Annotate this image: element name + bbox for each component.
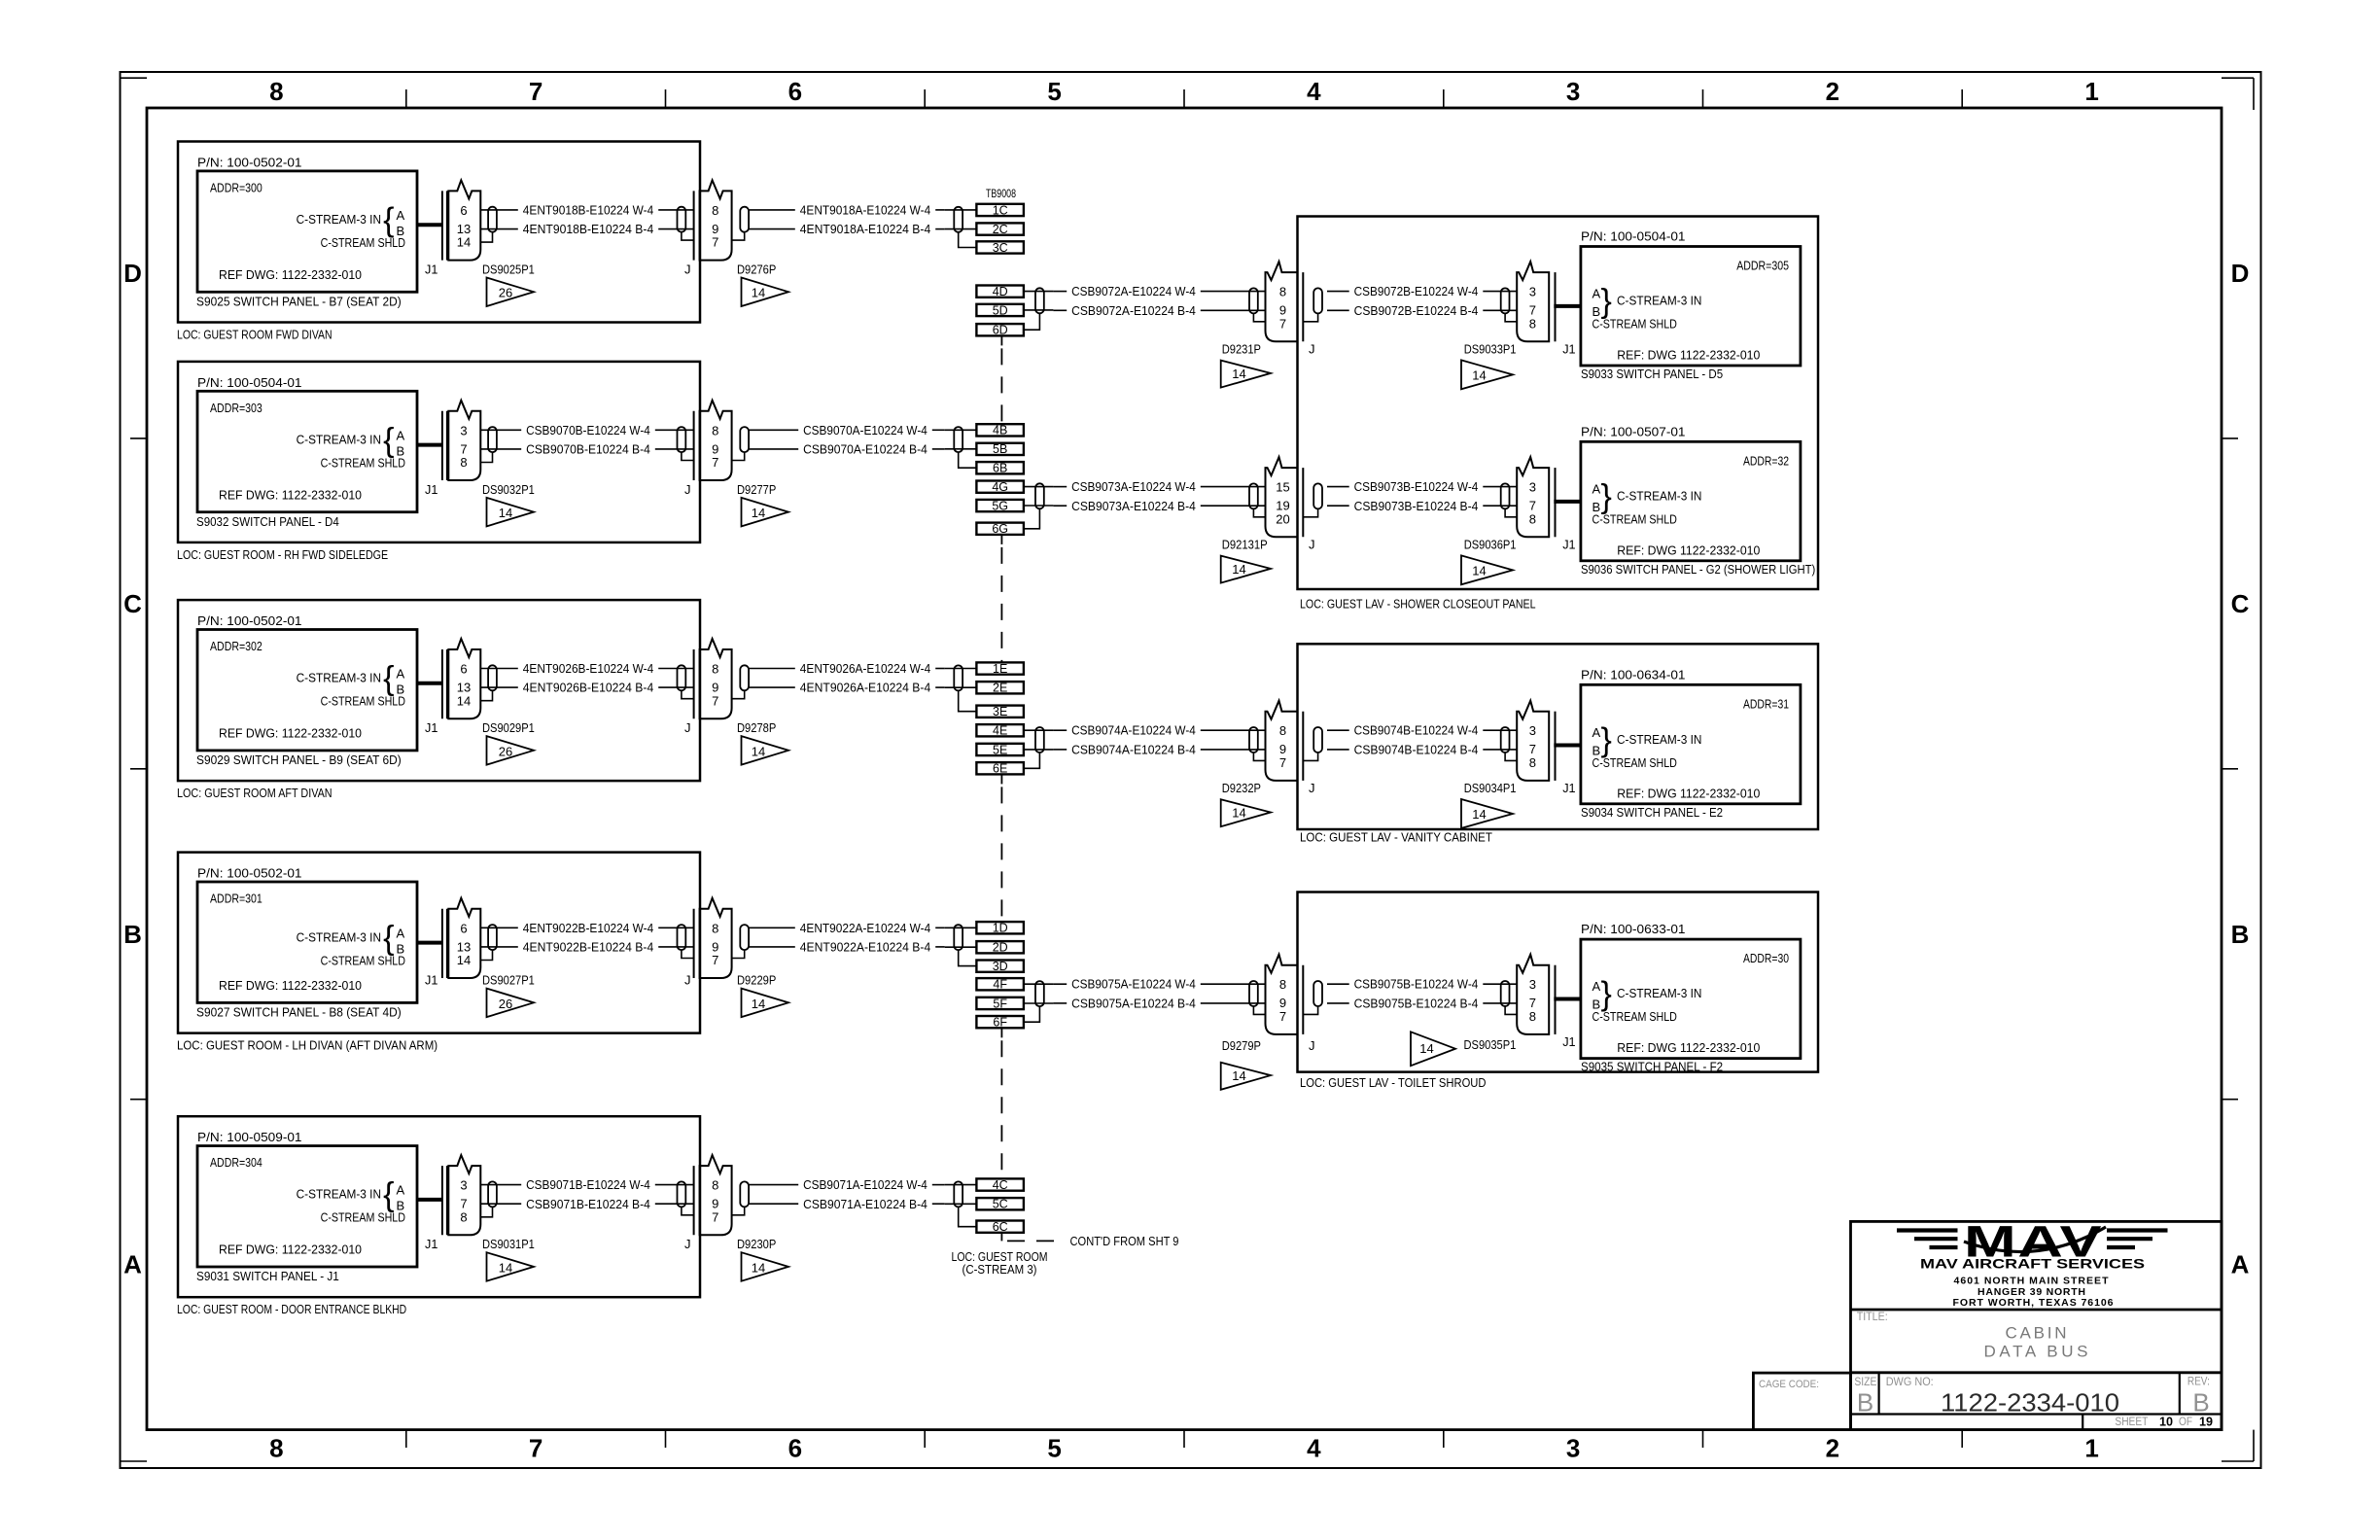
wire CSB9073B-E10224 W-4 (1327, 479, 1518, 494)
svg-text:S9036 SWITCH PANEL - G2 (SHOWE: S9036 SWITCH PANEL - G2 (SHOWER LIGHT) (1581, 562, 1815, 577)
svg-text:DS9027P1: DS9027P1 (482, 973, 535, 988)
J label for D9278P (684, 720, 691, 735)
svg-text:C-STREAM-3 IN: C-STREAM-3 IN (1617, 294, 1701, 308)
svg-text:CSB9074A-E10224 W-4: CSB9074A-E10224 W-4 (1071, 723, 1196, 738)
S9025 ADDR label (210, 181, 262, 195)
S9035 brace (1601, 976, 1612, 1013)
svg-text:CSB9072A-E10224 W-4: CSB9072A-E10224 W-4 (1071, 284, 1196, 298)
J1 label for S9031 (425, 1237, 437, 1251)
LOC: GUEST LAV - TOILET SHROUD label (1300, 1075, 1487, 1090)
S9031 REF DWG label (219, 1242, 362, 1257)
splice grommet at terminals 1C-2C (954, 207, 962, 232)
terminal 4F (TB9008) (976, 978, 1024, 992)
splice grommet at terminals 4F-5F (1035, 981, 1044, 1006)
S9034 inner unit box (1581, 684, 1801, 804)
svg-text:P/N: 100-0502-01: P/N: 100-0502-01 (197, 866, 302, 881)
wire 4ENT9022B-E10224 W-4 (480, 921, 694, 935)
svg-text:7: 7 (529, 1434, 542, 1463)
svg-text:P/N: 100-0509-01: P/N: 100-0509-01 (197, 1130, 302, 1144)
svg-text:8: 8 (1529, 1009, 1536, 1024)
svg-text:1: 1 (2084, 77, 2098, 106)
svg-text:1C: 1C (993, 203, 1008, 217)
S9036 REF DWG label (1617, 542, 1760, 557)
S9029 LOC label (177, 786, 332, 800)
wire 4ENT9018A-E10224 B-4 (749, 222, 945, 236)
svg-text:7: 7 (712, 1209, 718, 1224)
J1 label for S9025 (425, 262, 437, 277)
drawing title CABIN DATA BUS (1984, 1324, 2088, 1361)
svg-text:14: 14 (457, 235, 471, 250)
svg-text:8: 8 (460, 1209, 467, 1224)
svg-text:4601 NORTH MAIN STREET: 4601 NORTH MAIN STREET (1954, 1276, 2110, 1287)
svg-text:J1: J1 (425, 720, 437, 735)
svg-text:ADDR=32: ADDR=32 (1743, 453, 1789, 468)
S9029 ADDR label (210, 639, 262, 653)
wire ref triangle 14 for DS9032P1 (487, 498, 535, 527)
svg-text:TITLE:: TITLE: (1857, 1312, 1888, 1323)
SIZE label and value (1854, 1377, 1876, 1417)
svg-text:REF: DWG 1122-2332-010: REF: DWG 1122-2332-010 (1617, 1040, 1760, 1055)
svg-text:9: 9 (1279, 996, 1286, 1010)
svg-text:8: 8 (712, 203, 718, 218)
wire CSB9071B-E10224 B-4 (480, 1197, 694, 1211)
svg-text:7: 7 (460, 441, 467, 456)
svg-text:J1: J1 (425, 1237, 437, 1251)
svg-text:7: 7 (712, 455, 718, 470)
S9034 brace (1601, 722, 1612, 759)
svg-text:REF: DWG 1122-2332-010: REF: DWG 1122-2332-010 (1617, 786, 1760, 800)
svg-text:A: A (397, 926, 405, 940)
connector DS9032P1 (J1) (442, 401, 480, 480)
S9027 pin B label (397, 941, 405, 956)
svg-text:5D: 5D (993, 303, 1008, 317)
svg-text:CSB9074B-E10224 B-4: CSB9074B-E10224 B-4 (1354, 742, 1479, 756)
svg-text:CSB9070B-E10224 W-4: CSB9070B-E10224 W-4 (526, 423, 650, 437)
D9230P label (737, 1237, 776, 1251)
svg-text:A: A (1592, 482, 1601, 497)
svg-text:DS9035P1: DS9035P1 (1464, 1037, 1517, 1052)
svg-text:8: 8 (1279, 977, 1286, 992)
svg-text:9: 9 (1279, 303, 1286, 318)
S9035 REF DWG label (1617, 1040, 1760, 1055)
DS9034P1 label (1464, 781, 1517, 795)
DS9025P1 pigtail splice grommet (488, 207, 497, 232)
S9035 pin A label (1592, 979, 1601, 994)
svg-text:6C: 6C (993, 1220, 1008, 1234)
svg-text:CSB9075A-E10224 W-4: CSB9075A-E10224 W-4 (1071, 977, 1196, 992)
svg-text:5C: 5C (993, 1198, 1008, 1211)
connector DS9033P1 (J1) (1501, 262, 1556, 341)
svg-text:14: 14 (1472, 807, 1486, 822)
S9033 pin A label (1592, 287, 1601, 301)
shield jog to terminal 3E (959, 690, 977, 711)
S9027 brace (383, 920, 394, 957)
svg-text:}: } (1601, 283, 1612, 320)
svg-text:J: J (684, 1237, 691, 1251)
svg-text:HANGER 39 NORTH: HANGER 39 NORTH (1977, 1286, 2085, 1298)
J1 label for S9029 (425, 720, 437, 735)
wire CSB9070B-E10224 B-4 (480, 441, 694, 456)
svg-text:14: 14 (752, 997, 765, 1011)
S9034 title (1581, 805, 1723, 820)
thick A/B wire from S9025 to DS9025P1 (417, 223, 443, 227)
svg-text:CSB9071A-E10224 B-4: CSB9071A-E10224 B-4 (803, 1197, 927, 1211)
svg-text:S9031 SWITCH PANEL - J1: S9031 SWITCH PANEL - J1 (196, 1269, 339, 1283)
wire stubs into 1D/2D (945, 927, 977, 947)
S9033 P/N label (1581, 229, 1686, 244)
company address (1953, 1276, 2114, 1310)
DWG NO label and number (1886, 1377, 2119, 1417)
S9036 inner unit box (1581, 441, 1801, 561)
shield jog to terminal 3C (959, 232, 977, 248)
wire ref triangle 26 for DS9029P1 (487, 736, 535, 765)
svg-text:J1: J1 (1562, 538, 1575, 552)
svg-text:LOC: GUEST ROOM FWD DIVAN: LOC: GUEST ROOM FWD DIVAN (177, 328, 332, 342)
terminal 4G (TB9008) (976, 480, 1024, 494)
svg-text:14: 14 (752, 1260, 765, 1275)
svg-text:B: B (1857, 1388, 1873, 1417)
terminal 1D (TB9008) (976, 922, 1024, 935)
svg-text:C-STREAM-3 IN: C-STREAM-3 IN (297, 212, 381, 227)
svg-text:C-STREAM SHLD: C-STREAM SHLD (321, 455, 405, 470)
zone letters right (2231, 259, 2250, 1279)
terminal 6B (TB9008) (976, 462, 1024, 475)
wire ref triangle 14 for DS9034P1 (1461, 799, 1513, 828)
svg-text:2C: 2C (993, 223, 1008, 236)
svg-text:FORT WORTH, TEXAS 76106: FORT WORTH, TEXAS 76106 (1953, 1297, 2114, 1309)
title block frame (1851, 1221, 2222, 1429)
terminal 5F (TB9008) (976, 997, 1024, 1010)
svg-text:4: 4 (1307, 77, 1321, 106)
DS9032P1 pigtail splice grommet (488, 427, 497, 452)
switch panel block S9029 outer box (178, 600, 700, 781)
guest lav vanity cabinet outer box (1298, 644, 1819, 829)
svg-text:CSB9072A-E10224 B-4: CSB9072A-E10224 B-4 (1071, 303, 1196, 318)
terminal 3D (TB9008) (976, 960, 1024, 973)
svg-text:5: 5 (1047, 77, 1061, 106)
svg-text:9: 9 (1279, 742, 1286, 756)
svg-text:3: 3 (1529, 285, 1536, 299)
S9025 C-STREAM-3 IN label (297, 212, 381, 227)
J label for D9231P (1309, 342, 1315, 357)
S9027 LOC label (177, 1038, 437, 1053)
svg-text:J1: J1 (425, 482, 437, 497)
connector DS9036P1 (J1) (1501, 457, 1556, 537)
svg-text:13: 13 (457, 939, 471, 954)
svg-text:CABIN: CABIN (2006, 1324, 2067, 1343)
svg-text:P/N: 100-0507-01: P/N: 100-0507-01 (1581, 424, 1686, 438)
S9031 brace (383, 1176, 394, 1213)
svg-text:14: 14 (499, 506, 512, 520)
TITLE: label (1857, 1312, 1888, 1323)
svg-text:C-STREAM-3 IN: C-STREAM-3 IN (1617, 732, 1701, 747)
svg-text:REF DWG: 1122-2332-010: REF DWG: 1122-2332-010 (219, 978, 362, 993)
thick A/B wire from DS9034P1 to S9034 (1554, 744, 1581, 748)
S9033 C-STREAM-3 IN label (1617, 294, 1701, 308)
svg-text:DWG NO:: DWG NO: (1886, 1377, 1934, 1388)
svg-text:C-STREAM SHLD: C-STREAM SHLD (1592, 1009, 1677, 1024)
D92131P label (1222, 538, 1268, 552)
thick A/B wire from S9031 to DS9031P1 (417, 1198, 443, 1202)
svg-text:REF DWG: 1122-2332-010: REF DWG: 1122-2332-010 (219, 726, 362, 741)
svg-text:J: J (684, 720, 691, 735)
svg-text:7: 7 (712, 953, 718, 967)
wire ref triangle 14 for D9230P (742, 1252, 789, 1281)
svg-text:5: 5 (1047, 1434, 1061, 1463)
svg-text:14: 14 (457, 693, 471, 708)
svg-text:C-STREAM SHLD: C-STREAM SHLD (321, 953, 405, 967)
S9033 brace (1601, 283, 1612, 320)
svg-text:3: 3 (460, 423, 467, 437)
wire 4ENT9022B-E10224 B-4 (480, 939, 694, 954)
S9029 title (196, 752, 402, 767)
svg-text:4C: 4C (993, 1178, 1008, 1192)
wire CSB9072B-E10224 B-4 (1327, 303, 1518, 318)
svg-text:D9279P: D9279P (1222, 1038, 1261, 1053)
svg-text:P/N: 100-0502-01: P/N: 100-0502-01 (197, 156, 302, 170)
svg-text:D: D (2231, 259, 2250, 288)
switch panel block S9031 outer box (178, 1116, 700, 1297)
terminal 2D (TB9008) (976, 941, 1024, 955)
DS9027P1 pigtail splice grommet (488, 925, 497, 950)
svg-text:14: 14 (499, 1260, 512, 1275)
svg-text:26: 26 (499, 744, 512, 758)
S9032 inner unit box (197, 391, 417, 511)
svg-text:1122-2334-010: 1122-2334-010 (1941, 1388, 2119, 1417)
terminal 5D (TB9008) (976, 303, 1024, 317)
wire 4ENT9026A-E10224 B-4 (749, 681, 945, 695)
wire stubs out of 4E/5E (1024, 730, 1054, 750)
wire ref triangle 14 for DS9031P1 (487, 1252, 535, 1281)
wire CSB9075B-E10224 W-4 (1327, 977, 1518, 992)
svg-text:A: A (1592, 287, 1601, 301)
svg-text:DS9034P1: DS9034P1 (1464, 781, 1517, 795)
J1 label for DS9036P1 (1562, 538, 1575, 552)
wire CSB9072B-E10224 W-4 (1327, 284, 1518, 298)
svg-text:CONT'D FROM SHT 9: CONT'D FROM SHT 9 (1070, 1234, 1179, 1248)
svg-text:6B: 6B (993, 462, 1007, 475)
svg-text:J: J (684, 262, 691, 277)
connector DS9034P1 (J1) (1501, 701, 1556, 781)
S9035 ADDR label (1743, 951, 1789, 965)
wire CSB9071A-E10224 W-4 (749, 1177, 945, 1192)
svg-text:ADDR=30: ADDR=30 (1743, 951, 1789, 965)
S9029 inner unit box (197, 630, 417, 751)
D9231P label (1222, 342, 1261, 357)
connector D9229P (J) at panel wall (678, 898, 750, 978)
svg-text:CSB9073A-E10224 W-4: CSB9073A-E10224 W-4 (1071, 479, 1196, 494)
svg-text:3D: 3D (993, 960, 1008, 973)
J1 label for S9032 (425, 482, 437, 497)
svg-text:7: 7 (1279, 1009, 1286, 1024)
svg-text:4: 4 (1307, 1434, 1321, 1463)
svg-text:CSB9070A-E10224 W-4: CSB9070A-E10224 W-4 (803, 423, 927, 437)
svg-text:7: 7 (1279, 755, 1286, 770)
svg-text:19: 19 (2199, 1416, 2213, 1429)
wire ref triangle 14 for D9278P (742, 736, 789, 765)
S9031 pin B label (397, 1199, 405, 1213)
MAV AIRCRAFT SERVICES name (1920, 1256, 2145, 1272)
wire CSB9071A-E10224 B-4 (749, 1197, 945, 1211)
J1 label for DS9033P1 (1562, 342, 1575, 357)
svg-text:A: A (1592, 725, 1601, 740)
svg-text:}: } (1601, 478, 1612, 515)
svg-text:CSB9070B-E10224 B-4: CSB9070B-E10224 B-4 (526, 441, 650, 456)
S9029 brace (383, 660, 394, 697)
svg-text:7: 7 (1529, 742, 1536, 756)
svg-text:{: { (383, 422, 394, 459)
svg-text:LOC: GUEST LAV - SHOWER CLOSEO: LOC: GUEST LAV - SHOWER CLOSEOUT PANEL (1300, 597, 1536, 612)
svg-text:P/N: 100-0502-01: P/N: 100-0502-01 (197, 613, 302, 628)
S9035 C-STREAM SHLD label (1592, 1009, 1677, 1024)
svg-text:8: 8 (1279, 285, 1286, 299)
wire CSB9075A-E10224 B-4 (1053, 996, 1266, 1010)
svg-text:DS9033P1: DS9033P1 (1464, 342, 1517, 357)
zone letters left (123, 259, 142, 1279)
wire CSB9072A-E10224 W-4 (1053, 284, 1266, 298)
zone numbers bottom (269, 1434, 2099, 1463)
splice grommet at terminals 1D-2D (954, 925, 962, 950)
S9036 pin A label (1592, 482, 1601, 497)
S9031 C-STREAM SHLD label (321, 1210, 405, 1225)
D9229P label (737, 973, 776, 988)
svg-text:P/N: 100-0633-01: P/N: 100-0633-01 (1581, 922, 1686, 936)
terminal 1C (TB9008) (976, 203, 1024, 217)
terminal 5G (TB9008) (976, 499, 1024, 512)
shield jog to terminal 3D (959, 950, 977, 965)
J label for D9277P (684, 482, 691, 497)
connector DS9035P1 (J1) (1501, 955, 1556, 1034)
svg-text:DS9032P1: DS9032P1 (482, 482, 535, 497)
svg-text:CSB9073B-E10224 W-4: CSB9073B-E10224 W-4 (1354, 479, 1479, 494)
svg-text:26: 26 (499, 286, 512, 300)
CAGE CODE box (1753, 1373, 1850, 1430)
D9232P label (1222, 781, 1261, 795)
wire CSB9073A-E10224 B-4 (1053, 499, 1266, 513)
svg-text:TB9008: TB9008 (986, 187, 1016, 200)
S9036 C-STREAM-3 IN label (1617, 489, 1701, 504)
svg-text:J: J (1309, 342, 1315, 357)
svg-text:ADDR=31: ADDR=31 (1743, 696, 1789, 711)
D9277P label (737, 482, 776, 497)
svg-text:SIZE: SIZE (1854, 1377, 1876, 1388)
S9031 inner unit box (197, 1146, 417, 1267)
svg-text:1D: 1D (993, 922, 1008, 935)
wire stubs into 1E/2E (945, 669, 977, 688)
wire stubs into 4B/5B (945, 430, 977, 449)
svg-text:B: B (2231, 920, 2250, 949)
wire CSB9074B-E10224 W-4 (1327, 723, 1518, 738)
svg-text:9: 9 (712, 681, 718, 695)
svg-text:9: 9 (712, 222, 718, 236)
S9029 C-STREAM SHLD label (321, 694, 405, 709)
CONT'D FROM SHT 9 note (1070, 1234, 1179, 1248)
svg-text:DS9031P1: DS9031P1 (482, 1237, 535, 1251)
wire CSB9070B-E10224 W-4 (480, 423, 694, 437)
svg-text:4ENT9026A-E10224 B-4: 4ENT9026A-E10224 B-4 (800, 681, 930, 695)
S9032 pin A label (397, 428, 405, 442)
LOC: GUEST ROOM (C-STREAM 3) note (952, 1249, 1048, 1277)
svg-text:LOC: GUEST ROOM - DOOR ENTRANC: LOC: GUEST ROOM - DOOR ENTRANCE BLKHD (177, 1302, 406, 1316)
wire ref triangle 14 for DS9036P1 (1461, 555, 1513, 584)
svg-text:8: 8 (712, 662, 718, 677)
svg-text:OF: OF (2179, 1417, 2192, 1428)
svg-text:4ENT9018B-E10224 B-4: 4ENT9018B-E10224 B-4 (523, 222, 653, 236)
connector DS9025P1 (J1) (442, 180, 480, 260)
svg-text:CAGE CODE:: CAGE CODE: (1759, 1379, 1819, 1390)
DS9032P1 label (482, 482, 535, 497)
switch panel block S9032 outer box (178, 362, 700, 542)
wire stubs out of 4F/5F (1024, 984, 1054, 1003)
guest lav shower closeout panel outer box (1298, 217, 1819, 590)
svg-text:8: 8 (269, 1434, 283, 1463)
wire 4ENT9018A-E10224 W-4 (749, 202, 945, 217)
svg-text:4B: 4B (993, 424, 1007, 437)
shield jog from terminal 6E (1024, 752, 1040, 768)
S9025 P/N label (197, 156, 302, 170)
svg-text:4E: 4E (993, 724, 1007, 738)
svg-text:13: 13 (457, 681, 471, 695)
S9025 REF DWG label (219, 267, 362, 282)
svg-text:J1: J1 (425, 262, 437, 277)
terminal 4C (TB9008) (976, 1178, 1024, 1192)
svg-text:D9230P: D9230P (737, 1237, 776, 1251)
svg-text:C-STREAM SHLD: C-STREAM SHLD (1592, 512, 1677, 527)
connector DS9029P1 (J1) (442, 639, 480, 718)
svg-text:3: 3 (460, 1178, 467, 1193)
terminal 3E (TB9008) (976, 705, 1024, 718)
svg-text:7: 7 (460, 1197, 467, 1211)
wire 4ENT9022A-E10224 B-4 (749, 939, 945, 954)
svg-text:D9276P: D9276P (737, 262, 776, 277)
svg-text:6: 6 (788, 77, 802, 106)
thick A/B wire from DS9033P1 to S9033 (1554, 304, 1581, 308)
S9029 REF DWG label (219, 726, 362, 741)
S9031 P/N label (197, 1130, 302, 1144)
svg-text:C-STREAM-3 IN: C-STREAM-3 IN (297, 432, 381, 446)
terminal 4E (TB9008) (976, 724, 1024, 738)
svg-text:{: { (383, 920, 394, 957)
connector DS9031P1 (J1) (442, 1155, 480, 1235)
svg-text:7: 7 (1279, 316, 1286, 331)
splice grommet at terminals 4E-5E (1035, 727, 1044, 752)
svg-text:7: 7 (529, 77, 542, 106)
svg-text:J1: J1 (1562, 342, 1575, 357)
S9033 inner unit box (1581, 247, 1801, 367)
wire ref triangle 14 for D92131P (1221, 556, 1271, 583)
S9031 ADDR label (210, 1155, 262, 1170)
svg-text:14: 14 (752, 744, 765, 758)
J label for D92131P (1309, 538, 1315, 552)
S9029 C-STREAM-3 IN label (297, 671, 381, 685)
S9027 P/N label (197, 866, 302, 881)
svg-text:A: A (397, 1183, 405, 1198)
shield jog from terminal 6F (1024, 1006, 1040, 1022)
terminal 6C (TB9008) (976, 1220, 1024, 1234)
svg-text:S9025 SWITCH PANEL - B7 (SEAT: S9025 SWITCH PANEL - B7 (SEAT 2D) (196, 295, 402, 309)
svg-text:1E: 1E (993, 662, 1007, 676)
S9025 inner unit box (197, 171, 417, 292)
S9032 C-STREAM SHLD label (321, 455, 405, 470)
connector D9231P (J) at panel wall (1249, 262, 1322, 341)
svg-text:4ENT9026A-E10224 W-4: 4ENT9026A-E10224 W-4 (800, 661, 930, 676)
svg-text:2: 2 (1826, 77, 1839, 106)
splice grommet at terminals 4D-5D (1035, 288, 1044, 313)
svg-text:26: 26 (499, 997, 512, 1011)
shield jog to terminal 6B (959, 452, 977, 468)
S9036 title (1581, 562, 1815, 577)
S9025 title (196, 295, 402, 309)
